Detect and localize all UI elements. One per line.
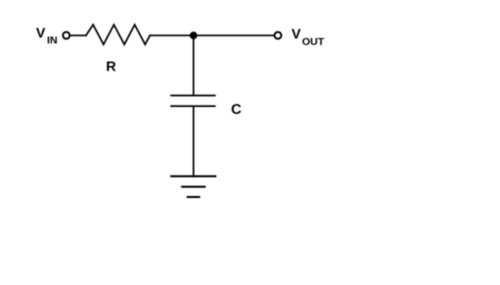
svg-text:OUT: OUT [302, 36, 325, 48]
svg-text:V: V [36, 25, 46, 41]
svg-text:C: C [231, 102, 242, 118]
svg-text:R: R [106, 58, 116, 74]
svg-text:V: V [292, 26, 302, 42]
svg-text:IN: IN [47, 35, 58, 47]
